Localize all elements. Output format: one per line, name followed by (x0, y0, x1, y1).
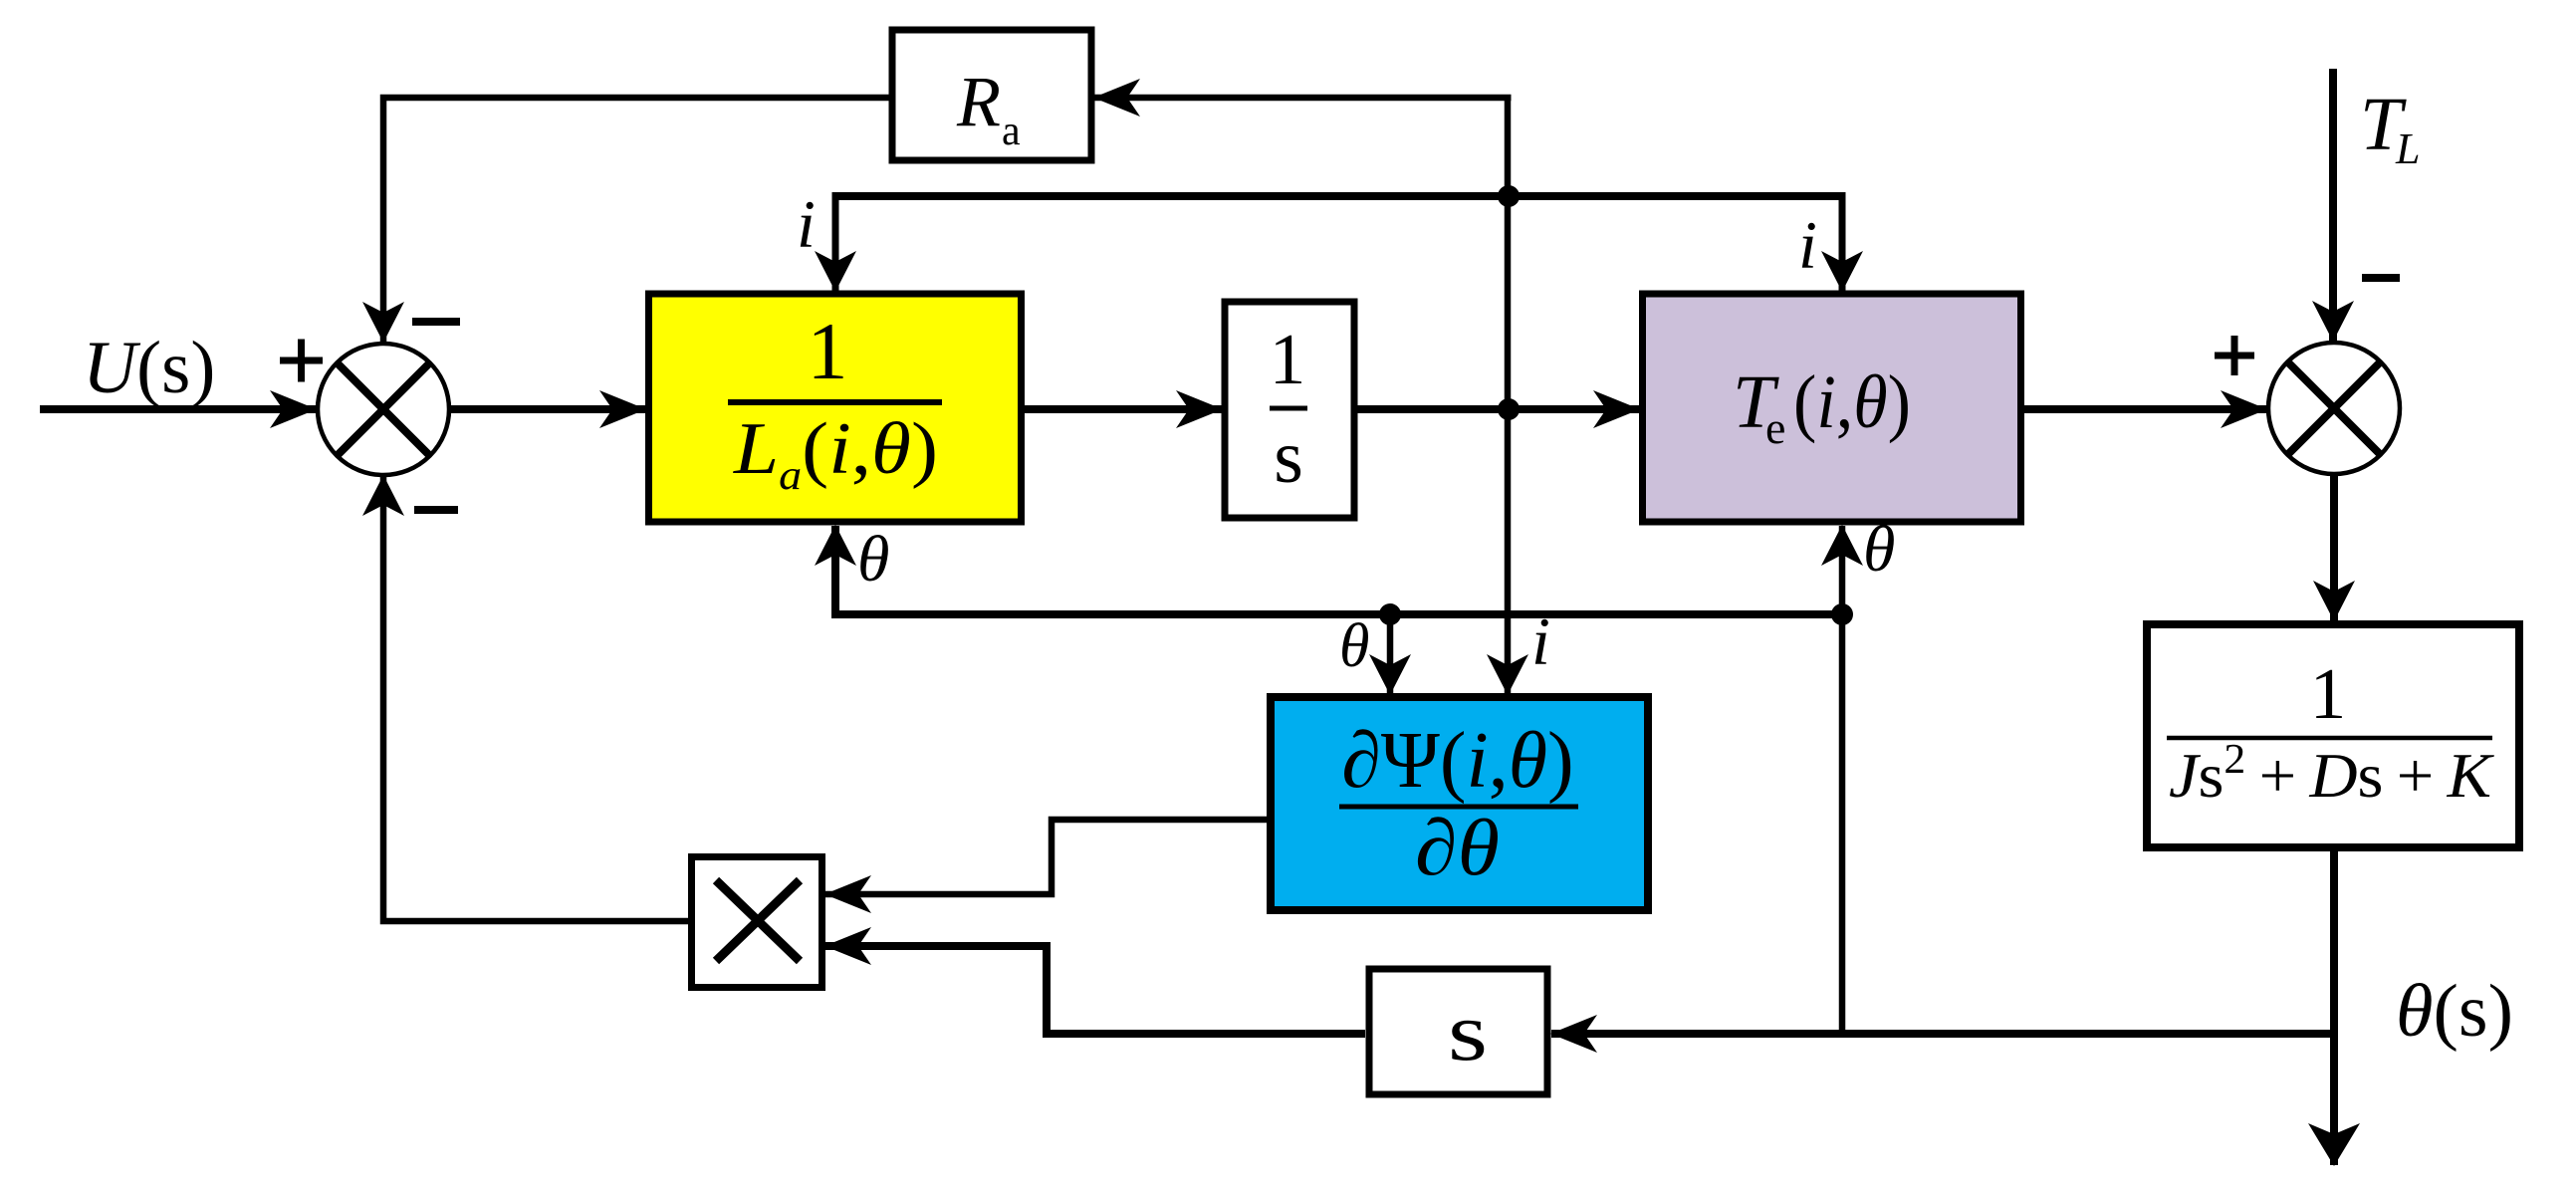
svg-text:L: L (2395, 124, 2420, 173)
svg-text:R: R (956, 62, 1001, 141)
svg-text:s: s (1274, 415, 1303, 499)
svg-text:i: i (1798, 207, 1817, 283)
svg-text:θ: θ (857, 523, 889, 596)
svg-text:1: 1 (808, 306, 848, 396)
svg-text:e: e (1765, 402, 1785, 453)
svg-text:∂θ: ∂θ (1415, 805, 1500, 892)
svg-text:i: i (1531, 603, 1550, 679)
svg-text:i: i (797, 186, 816, 262)
svg-text:(i,θ): (i,θ) (1793, 360, 1911, 444)
svg-text:s: s (1448, 986, 1488, 1078)
svg-text:1: 1 (2310, 653, 2347, 734)
svg-text:θ: θ (1863, 513, 1895, 586)
svg-text:U(s): U(s) (83, 327, 215, 409)
svg-text:1: 1 (1270, 319, 1306, 399)
svg-text:θ(s): θ(s) (2396, 970, 2513, 1053)
svg-text:θ: θ (1339, 612, 1369, 680)
svg-text:a: a (1002, 109, 1021, 154)
svg-text:La(i,θ): La(i,θ) (733, 408, 938, 499)
svg-text:∂Ψ(i,θ): ∂Ψ(i,θ) (1341, 717, 1573, 805)
svg-text:Js2 + Ds + K: Js2 + Ds + K (2169, 737, 2494, 811)
